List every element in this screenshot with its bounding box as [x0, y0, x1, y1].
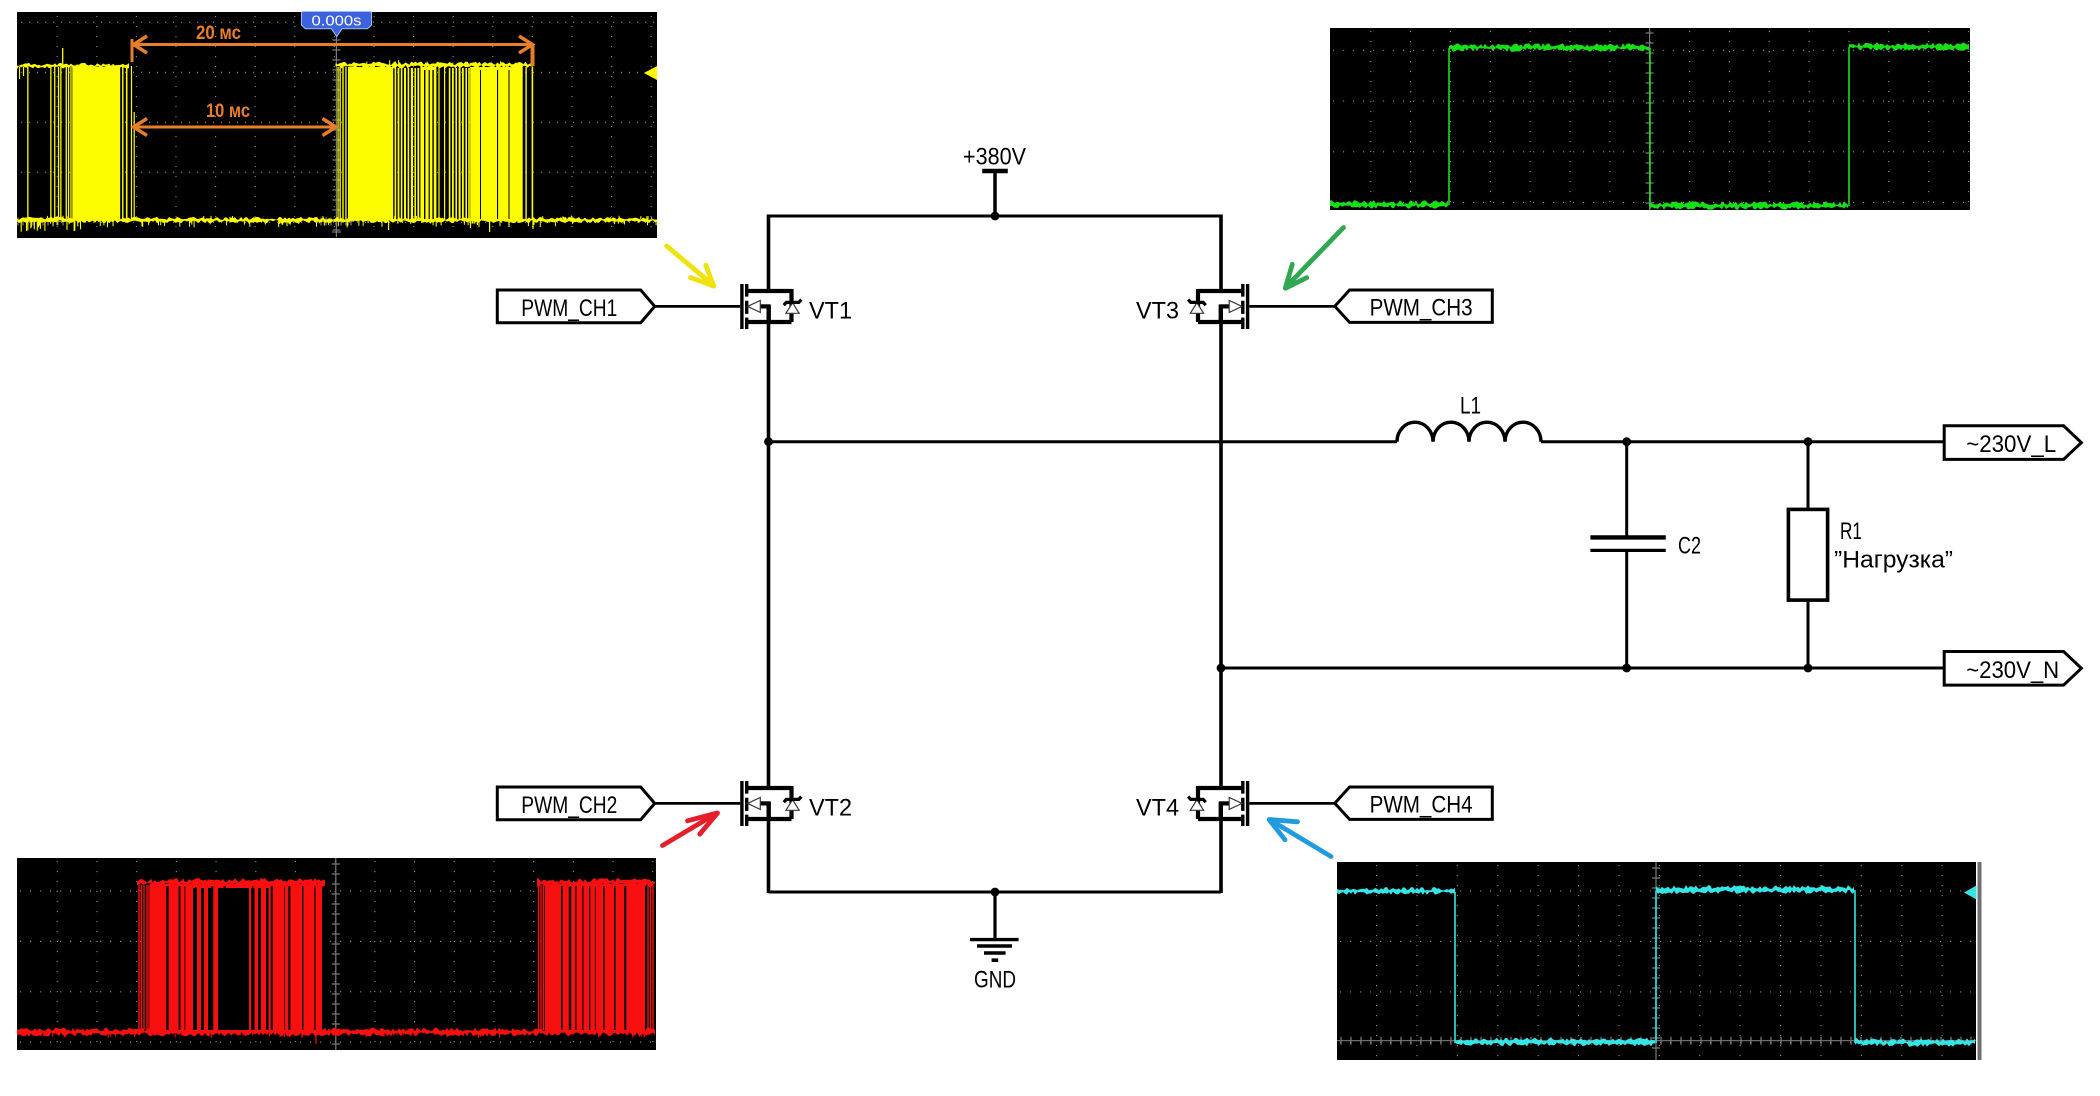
- net label PWM_CH4: [1335, 787, 1493, 819]
- wire: right bus VT3 drain: [1219, 215, 1223, 292]
- node: L rail / R1 junction: [1804, 437, 1813, 446]
- svg-text:PWM_CH3: PWM_CH3: [1370, 295, 1473, 322]
- output port ~230V_L: [1944, 426, 2081, 460]
- svg-text:PWM_CH4: PWM_CH4: [1370, 792, 1473, 819]
- svg-text:R1: R1: [1840, 518, 1862, 545]
- transistor VT2 (low-side left MOSFET): [742, 781, 801, 826]
- svg-text:+380V: +380V: [963, 144, 1026, 171]
- CH3 green waveform trace: [1330, 42, 1969, 210]
- svg-text:PWM_CH2: PWM_CH2: [521, 792, 617, 819]
- oscillogram screenshot CH2 (red PWM burst): [17, 858, 656, 1050]
- CH1 trigger level marker: [644, 66, 657, 80]
- red annotation arrow (CH2 -> VT2): [663, 813, 718, 846]
- svg-text:VT3: VT3: [1136, 298, 1179, 325]
- wire: left bus mid rail to VT2 drain: [767, 440, 771, 788]
- svg-text:~230V_L: ~230V_L: [1966, 431, 2056, 458]
- green annotation arrow (CH3 -> VT3): [1285, 228, 1343, 289]
- oscillogram screenshot CH1 (yellow PWM burst): [17, 12, 657, 238]
- CH4 cyan waveform trace: [1337, 885, 1975, 1047]
- wire: right bridge midpoint to output ~230V_N: [1221, 667, 1945, 670]
- transistor VT3 (high-side right MOSFET): [1188, 284, 1247, 329]
- wire: PWM_CH2 to VT2 gate: [655, 802, 741, 805]
- svg-text:L1: L1: [1460, 393, 1481, 420]
- transistor VT1 (high-side left MOSFET): [742, 284, 801, 329]
- wire: left bus VT1 source to mid rail: [767, 305, 771, 443]
- wire: C2 top lead: [1625, 442, 1628, 536]
- svg-text:20 мс: 20 мс: [196, 23, 241, 44]
- wire: R1 bottom lead: [1807, 600, 1810, 668]
- node: top rail / +380V junction: [991, 212, 1000, 221]
- trigger time tag 0.000s: [301, 12, 371, 37]
- resistor R1: [1788, 509, 1827, 600]
- yellow annotation arrow (CH1 -> VT1): [667, 246, 714, 286]
- svg-text:C2: C2: [1678, 533, 1701, 560]
- wire: right bus VT3 source to VT4 drain: [1219, 305, 1223, 788]
- ground symbol: [970, 892, 1019, 960]
- power symbol +380V: [982, 171, 1008, 216]
- svg-text:PWM_CH1: PWM_CH1: [521, 295, 617, 322]
- wire: PWM_CH1 to VT1 gate: [655, 305, 741, 308]
- wire: right bus VT4 source to bottom rail: [1219, 802, 1223, 893]
- svg-text:~230V_N: ~230V_N: [1966, 657, 2059, 684]
- wire: left bus VT2 source to bottom rail: [767, 802, 771, 893]
- CH1 yellow waveform trace: [17, 48, 657, 232]
- node: L rail / C2 junction: [1622, 437, 1631, 446]
- CH2 red waveform trace: [17, 878, 655, 1044]
- node: right bridge midpoint: [1217, 664, 1226, 673]
- svg-text:10 мс: 10 мс: [206, 101, 250, 122]
- CH4 trigger level marker: [1964, 886, 1977, 900]
- oscillogram screenshot CH3 (green square wave): [1330, 28, 1970, 210]
- transistor VT4 (low-side right MOSFET): [1188, 781, 1247, 826]
- net label PWM_CH2: [497, 787, 654, 820]
- svg-text:VT4: VT4: [1136, 795, 1179, 822]
- blue annotation arrow (CH4 -> VT4): [1269, 820, 1331, 857]
- svg-text:VT1: VT1: [809, 298, 852, 325]
- CH4 scrollbar strip: [1978, 862, 1982, 1060]
- svg-text:GND: GND: [974, 967, 1016, 994]
- oscillogram screenshot CH4 (cyan square wave): [1337, 862, 1976, 1060]
- wire: +380V top rail: [769, 215, 1222, 218]
- net label PWM_CH1: [497, 290, 654, 323]
- capacitor C2: [1590, 537, 1665, 550]
- inductor L1: [1397, 422, 1541, 442]
- dimension arrows 20ms / 10ms: [132, 23, 533, 136]
- net label PWM_CH3: [1335, 290, 1493, 322]
- wire: PWM_CH4 to VT4 gate: [1249, 802, 1335, 805]
- wire: L1 to output ~230V_L: [1541, 440, 1945, 443]
- node: GND junction: [991, 888, 1000, 897]
- node: N rail / R1 junction: [1804, 664, 1813, 673]
- svg-text:0.000s: 0.000s: [312, 14, 362, 30]
- wire: left bus VT1 drain: [767, 215, 771, 292]
- output port ~230V_N: [1944, 652, 2081, 686]
- wire: C2 bottom lead: [1625, 552, 1628, 668]
- wire: bridge mid rail to L1: [769, 440, 1398, 443]
- wire: R1 top lead: [1807, 442, 1810, 510]
- wire: bottom GND rail: [769, 891, 1222, 894]
- wire: PWM_CH3 to VT3 gate: [1249, 305, 1335, 308]
- svg-text:VT2: VT2: [809, 795, 852, 822]
- svg-text:”Нагрузка”: ”Нагрузка”: [1834, 547, 1953, 574]
- node: left bridge midpoint: [764, 437, 773, 446]
- node: N rail / C2 junction: [1622, 664, 1631, 673]
